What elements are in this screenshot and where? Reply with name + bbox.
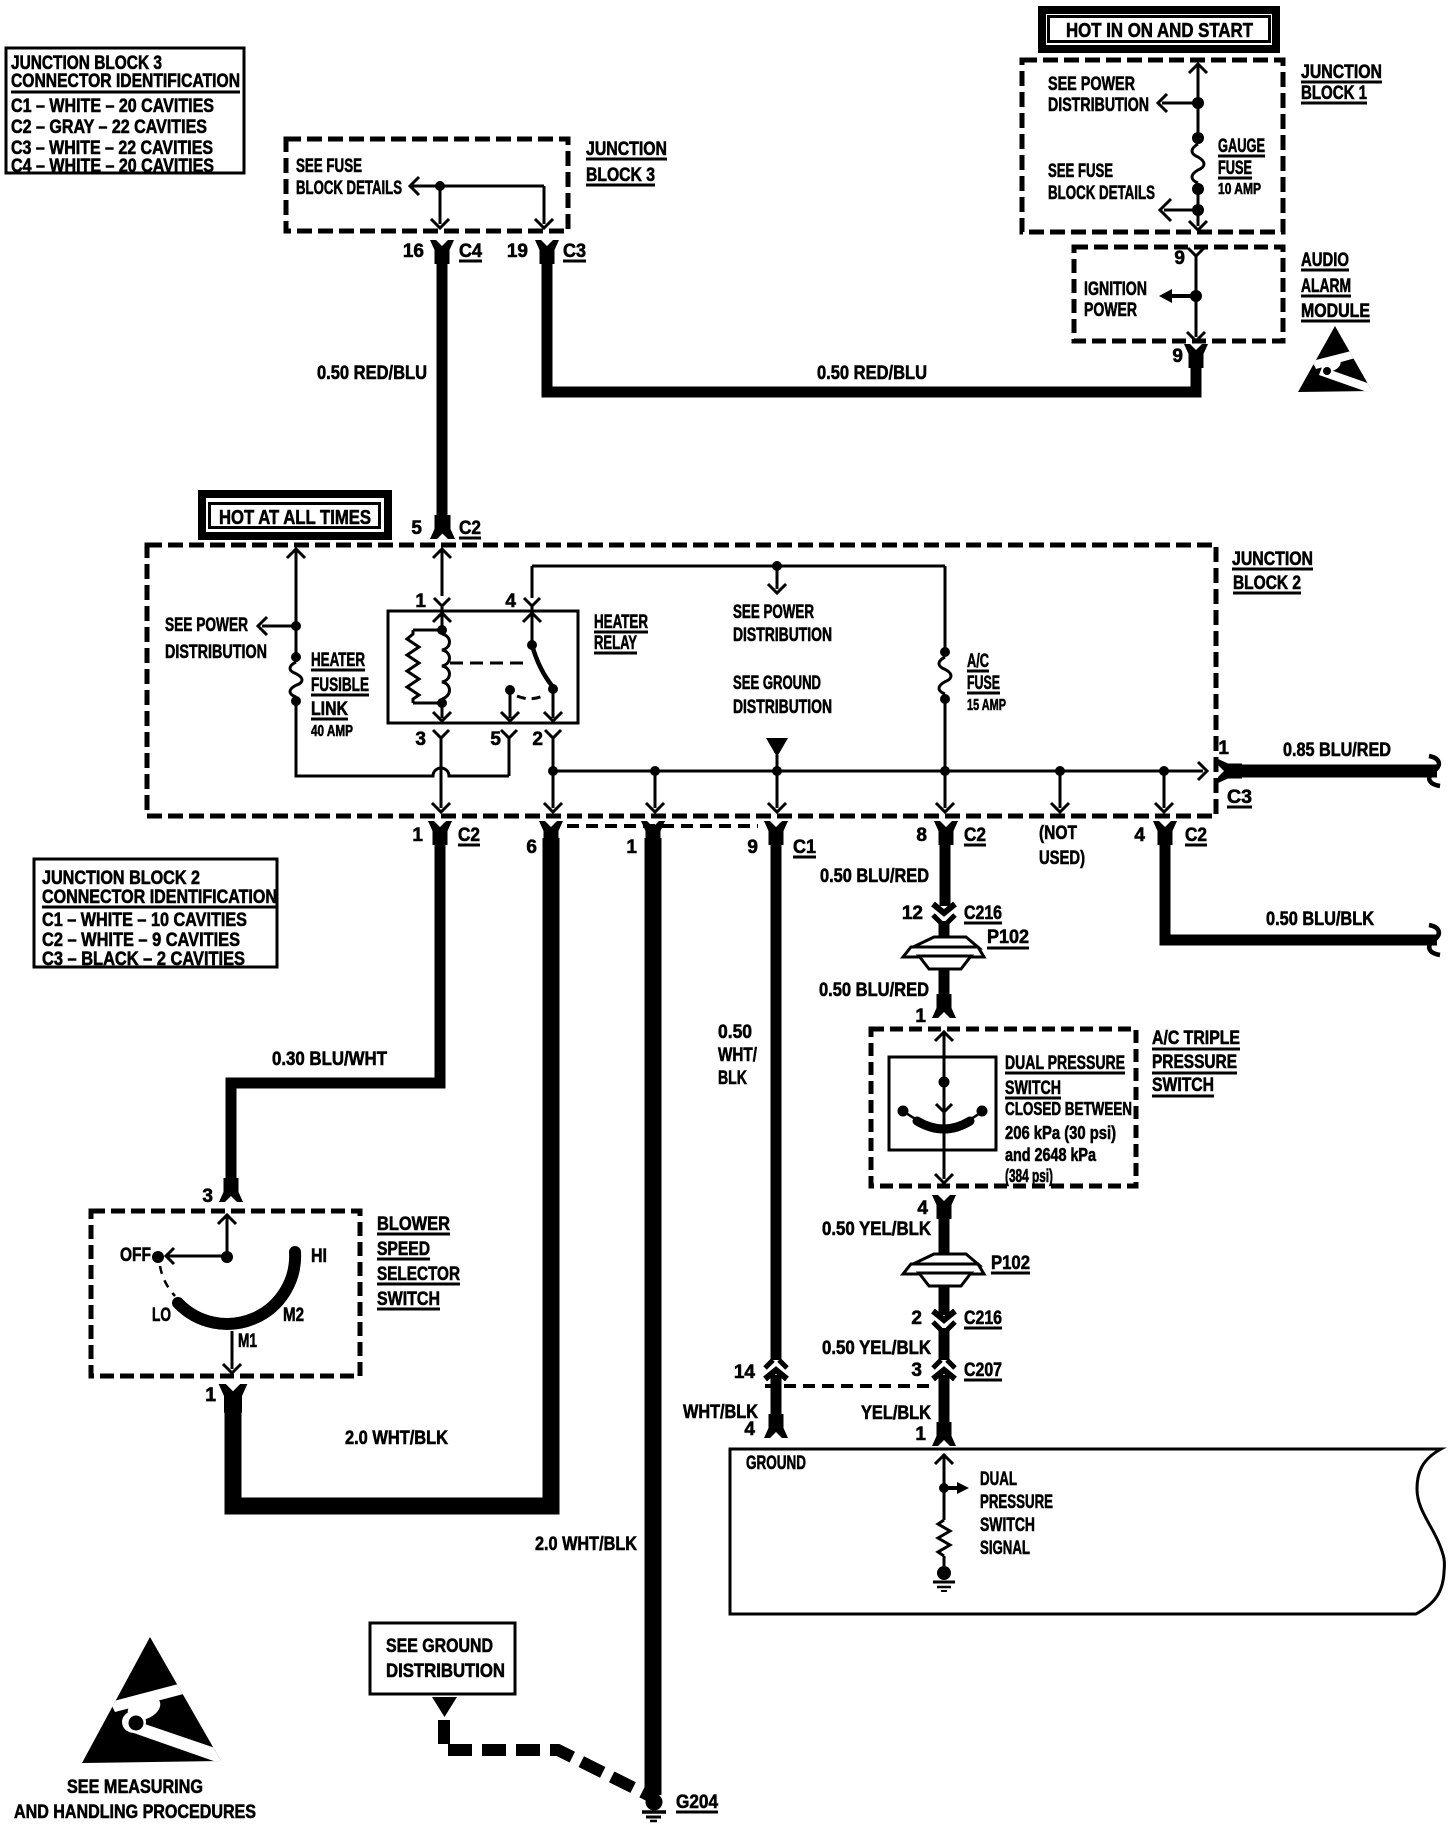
svg-text:C2 – WHITE – 9 CAVITIES: C2 – WHITE – 9 CAVITIES xyxy=(42,930,240,951)
svg-text:M2: M2 xyxy=(283,1305,304,1326)
svg-text:0.50 YEL/BLK: 0.50 YEL/BLK xyxy=(822,1219,931,1240)
svg-text:USED): USED) xyxy=(1039,848,1085,869)
svg-text:PRESSURE: PRESSURE xyxy=(1152,1052,1237,1073)
svg-text:GAUGE: GAUGE xyxy=(1218,136,1265,157)
grommet P102 (first) xyxy=(903,927,1029,969)
wire: JB3 junction down to C4-16 xyxy=(431,186,449,228)
svg-text:and 2648 kPa: and 2648 kPa xyxy=(1005,1145,1097,1165)
svg-text:JUNCTION: JUNCTION xyxy=(1301,62,1382,83)
svg-text:4: 4 xyxy=(1134,825,1145,846)
svg-text:SWITCH: SWITCH xyxy=(377,1289,440,1310)
node: bus junction 6 xyxy=(650,766,660,776)
svg-text:SEE FUSE: SEE FUSE xyxy=(296,156,362,177)
connector: blower switch pin 1 xyxy=(205,1385,216,1406)
svg-text:SPEED: SPEED xyxy=(377,1239,430,1260)
svg-text:SEE GROUND: SEE GROUND xyxy=(733,673,821,694)
svg-text:5: 5 xyxy=(490,729,501,750)
svg-text:HOT IN ON AND START: HOT IN ON AND START xyxy=(1066,20,1253,42)
svg-text:5: 5 xyxy=(411,518,422,539)
svg-text:BLK: BLK xyxy=(718,1068,747,1089)
connector: pressure switch pin 1 xyxy=(915,994,956,1027)
svg-text:(384 psi): (384 psi) xyxy=(1005,1166,1053,1186)
svg-text:0.50 YEL/BLK: 0.50 YEL/BLK xyxy=(822,1338,931,1359)
A/C triple pressure switch dashed box xyxy=(871,1029,1136,1186)
svg-text:IGNITION: IGNITION xyxy=(1084,279,1147,300)
svg-text:1: 1 xyxy=(205,1385,216,1406)
svg-text:DISTRIBUTION: DISTRIBUTION xyxy=(386,1661,505,1682)
wire: left branch to fusible link xyxy=(287,549,305,662)
wire: entry arrow to relay pin 1 xyxy=(433,549,451,596)
relay pin 5 contact xyxy=(505,685,545,699)
wire 0.50 RED/BLU from JB3 C4-16 down to JB2 C2-5 xyxy=(317,252,454,539)
connector C2 cavity 1 (blower feed) xyxy=(412,821,480,846)
svg-text:DUAL: DUAL xyxy=(980,1469,1017,1490)
connector C2 cavity 4 xyxy=(1134,821,1207,846)
ground: module internal ground xyxy=(933,1566,955,1591)
wire 0.50 BLU/BLK xyxy=(1165,838,1440,955)
svg-text:SEE POWER: SEE POWER xyxy=(165,615,248,636)
wire arrow dual pressure switch signal xyxy=(944,1482,969,1494)
svg-text:2.0 WHT/BLK: 2.0 WHT/BLK xyxy=(345,1428,448,1449)
ESD symbol large xyxy=(82,1637,230,1765)
svg-text:FUSIBLE: FUSIBLE xyxy=(311,675,369,696)
relay pin 5 connector xyxy=(490,729,517,750)
svg-text:C2: C2 xyxy=(1185,825,1207,846)
svg-text:SEE MEASURING: SEE MEASURING xyxy=(67,1777,203,1798)
svg-text:ALARM: ALARM xyxy=(1301,276,1351,297)
svg-text:2.0 WHT/BLK: 2.0 WHT/BLK xyxy=(535,1534,637,1555)
see power distribution label (JB1) xyxy=(1048,74,1149,116)
wire 2.0 WHT/BLK blower return xyxy=(205,838,551,1506)
svg-text:JUNCTION BLOCK 2: JUNCTION BLOCK 2 xyxy=(42,868,200,889)
banner: HOT IN ON AND START xyxy=(1042,10,1276,49)
svg-text:3: 3 xyxy=(415,729,426,750)
wire 0.50 BLU/RED to C216 xyxy=(820,838,945,906)
junction block 2 connector identification table xyxy=(34,859,277,970)
svg-text:SIGNAL: SIGNAL xyxy=(980,1538,1030,1559)
not used drop xyxy=(1039,823,1085,869)
wire arrow to power distribution (JB2 left) xyxy=(258,617,301,635)
connector C207 cavity 3 xyxy=(911,1360,1002,1381)
dual pressure switch labels xyxy=(1005,1053,1132,1186)
wire YEL/BLK to module xyxy=(861,1375,944,1425)
see fuse block details label (JB1) xyxy=(1048,161,1155,204)
blower speed selector switch dashed box xyxy=(91,1211,360,1376)
svg-text:0.50 RED/BLU: 0.50 RED/BLU xyxy=(817,363,927,384)
svg-text:HI: HI xyxy=(311,1246,327,1267)
svg-text:C216: C216 xyxy=(964,903,1002,924)
svg-text:C2: C2 xyxy=(964,825,986,846)
dual pressure switch signal label xyxy=(980,1469,1053,1559)
connector C216 cavity 12 xyxy=(902,903,1002,924)
svg-text:SELECTOR: SELECTOR xyxy=(377,1264,460,1285)
svg-text:C4: C4 xyxy=(459,241,482,262)
see ground distribution label (JB2) xyxy=(733,673,832,718)
relay pin 4 xyxy=(505,591,541,645)
node: JB3 internal junction xyxy=(435,181,445,191)
ignition power label xyxy=(1084,279,1147,321)
svg-text:C4 – WHITE – 20 CAVITIES: C4 – WHITE – 20 CAVITIES xyxy=(11,156,214,177)
fuse: gauge fuse 10 amp xyxy=(1192,132,1265,198)
connector C216 cavity 2 xyxy=(911,1308,1002,1330)
svg-text:RELAY: RELAY xyxy=(594,633,637,654)
relay actuator dashed line xyxy=(450,662,526,665)
svg-text:G204: G204 xyxy=(676,1792,718,1813)
junction block 1 dashed box xyxy=(1022,60,1283,232)
svg-text:0.50: 0.50 xyxy=(718,1022,752,1043)
connector C3 cavity 19 xyxy=(507,240,586,264)
see power distribution label (JB2 left) xyxy=(165,615,267,663)
svg-text:0.30 BLU/WHT: 0.30 BLU/WHT xyxy=(272,1049,387,1070)
svg-text:C207: C207 xyxy=(964,1360,1002,1381)
svg-text:PRESSURE: PRESSURE xyxy=(980,1492,1053,1513)
wire 2.0 WHT/BLK to G204 xyxy=(535,838,653,1795)
wire 0.50 RED/BLU from JB3 C3-19 to audio alarm module pin 9 xyxy=(547,252,1196,392)
junction block 2 dashed box xyxy=(147,545,1216,816)
resistor: module pull-down xyxy=(938,1488,950,1566)
svg-text:YEL/BLK: YEL/BLK xyxy=(861,1403,931,1424)
relay pin 3 internal xyxy=(433,703,451,721)
wire arrow ignition power xyxy=(1159,289,1202,303)
svg-text:WHT/: WHT/ xyxy=(718,1045,758,1066)
svg-text:BLOWER: BLOWER xyxy=(377,1214,450,1235)
svg-text:M1: M1 xyxy=(238,1331,257,1352)
wire: relay pin 4 up and across to A/C fuse xyxy=(532,566,945,652)
wire: fusible link to relay pin 5 (hop over pin 3) xyxy=(296,701,509,776)
svg-text:0.50 BLU/RED: 0.50 BLU/RED xyxy=(820,866,929,887)
node: bus junction 4 xyxy=(1159,766,1169,776)
svg-text:SEE FUSE: SEE FUSE xyxy=(1048,161,1113,182)
wire 0.30 BLU/WHT to blower switch xyxy=(219,838,440,1202)
wire arrow to power distribution (JB1) xyxy=(1158,94,1198,112)
audio alarm module title xyxy=(1301,250,1370,322)
connector: module pin 4 xyxy=(744,1414,788,1440)
wire 0.50 YEL/BLK to P102 xyxy=(822,1212,944,1315)
relay pin 2 internal xyxy=(544,689,562,721)
svg-text:14: 14 xyxy=(734,1362,756,1383)
dashed ground wire to G204 xyxy=(444,1720,650,1796)
svg-text:DISTRIBUTION: DISTRIBUTION xyxy=(733,697,832,718)
svg-text:9: 9 xyxy=(747,837,758,858)
svg-text:AUDIO: AUDIO xyxy=(1301,250,1349,271)
svg-text:C3: C3 xyxy=(563,241,586,262)
wire arrow see power distribution (right) xyxy=(768,566,786,593)
control module box xyxy=(730,1449,1444,1614)
svg-text:SWITCH: SWITCH xyxy=(1005,1078,1061,1099)
svg-text:DISTRIBUTION: DISTRIBUTION xyxy=(733,625,832,646)
svg-text:15 AMP: 15 AMP xyxy=(967,697,1006,714)
svg-text:DUAL PRESSURE: DUAL PRESSURE xyxy=(1005,1053,1125,1074)
svg-text:POWER: POWER xyxy=(1084,300,1137,321)
wire WHT/BLK to module xyxy=(683,1375,776,1423)
svg-text:GROUND: GROUND xyxy=(746,1453,806,1474)
svg-text:2: 2 xyxy=(911,1308,922,1329)
svg-text:BLOCK DETAILS: BLOCK DETAILS xyxy=(296,178,402,199)
svg-text:C1 – WHITE – 20 CAVITIES: C1 – WHITE – 20 CAVITIES xyxy=(11,96,214,117)
heater relay title xyxy=(594,612,648,654)
node: bus junction ground xyxy=(772,766,782,776)
svg-text:BLOCK DETAILS: BLOCK DETAILS xyxy=(1048,183,1155,204)
wire: relay pin 3 to JB2 bottom xyxy=(432,748,450,812)
junction block 3 connector identification table xyxy=(6,48,244,177)
svg-text:SEE POWER: SEE POWER xyxy=(1048,74,1135,95)
svg-text:(NOT: (NOT xyxy=(1039,823,1077,844)
junction block 3 dashed box xyxy=(286,139,568,231)
svg-text:SEE POWER: SEE POWER xyxy=(733,602,814,623)
ground distribution triangle (bottom) xyxy=(432,1697,457,1717)
see power distribution label (right) xyxy=(733,602,832,646)
svg-text:HOT AT ALL TIMES: HOT AT ALL TIMES xyxy=(219,507,371,529)
svg-text:A/C: A/C xyxy=(967,651,989,672)
svg-text:MODULE: MODULE xyxy=(1301,301,1370,322)
svg-text:C216: C216 xyxy=(964,1308,1002,1329)
svg-text:CLOSED BETWEEN: CLOSED BETWEEN xyxy=(1005,1099,1132,1119)
svg-text:SWITCH: SWITCH xyxy=(980,1515,1035,1536)
banner: HOT AT ALL TIMES xyxy=(202,494,388,536)
svg-text:AND HANDLING PROCEDURES: AND HANDLING PROCEDURES xyxy=(14,1802,256,1823)
svg-text:40 AMP: 40 AMP xyxy=(311,723,353,740)
svg-text:1: 1 xyxy=(626,837,637,858)
svg-text:1: 1 xyxy=(915,1424,926,1445)
module internal: pin 1 circuit xyxy=(935,1455,953,1488)
svg-text:1: 1 xyxy=(1218,738,1229,759)
node: JB1 junction xyxy=(1192,97,1204,109)
wire arrow to fuse block (JB1) xyxy=(1160,199,1204,221)
node: module junction xyxy=(939,1483,949,1493)
svg-text:10 AMP: 10 AMP xyxy=(1218,181,1261,198)
svg-text:BLOCK 2: BLOCK 2 xyxy=(1233,573,1301,594)
svg-text:P102: P102 xyxy=(987,927,1029,948)
connector C4 cavity 16 xyxy=(403,240,483,264)
connector C2 cavity 8 xyxy=(916,821,986,846)
svg-text:0.50 BLU/RED: 0.50 BLU/RED xyxy=(819,980,929,1001)
svg-text:9: 9 xyxy=(1172,346,1183,367)
svg-text:3: 3 xyxy=(202,1186,213,1207)
svg-text:HEATER: HEATER xyxy=(311,650,365,671)
junction block 2 title xyxy=(1232,549,1313,594)
wire 0.50 YEL/BLK to C207 xyxy=(822,1328,944,1360)
svg-text:CONNECTOR IDENTIFICATION: CONNECTOR IDENTIFICATION xyxy=(42,887,277,908)
svg-text:6: 6 xyxy=(526,837,537,858)
node: power distribution tap xyxy=(772,561,782,571)
connector: module pin 1 xyxy=(915,1422,956,1446)
svg-text:C3 – BLACK – 2 CAVITIES: C3 – BLACK – 2 CAVITIES xyxy=(42,949,245,970)
dashed harness link xyxy=(765,1384,935,1388)
connector: AAM pin 9 output xyxy=(1172,344,1208,368)
svg-text:206 kPa (30 psi): 206 kPa (30 psi) xyxy=(1005,1123,1116,1143)
svg-text:LINK: LINK xyxy=(311,699,348,720)
node: bus junction fuse xyxy=(940,766,950,776)
relay coil with resistor xyxy=(407,625,450,708)
svg-text:4: 4 xyxy=(744,1419,755,1440)
connector: AAM pin 9 top xyxy=(1174,248,1204,296)
wire: JB1 vertical feed xyxy=(1189,64,1207,230)
wire: A/C fuse to bus xyxy=(944,699,947,771)
relay pin 3 connector xyxy=(415,729,449,750)
svg-text:JUNCTION: JUNCTION xyxy=(586,139,667,160)
svg-text:4: 4 xyxy=(917,1198,928,1219)
svg-text:BLOCK 3: BLOCK 3 xyxy=(586,165,655,186)
svg-text:C2 – GRAY – 22 CAVITIES: C2 – GRAY – 22 CAVITIES xyxy=(11,117,207,138)
relay: heater relay box xyxy=(388,611,578,723)
svg-text:0.50 RED/BLU: 0.50 RED/BLU xyxy=(317,363,427,384)
see measuring and handling procedures label xyxy=(14,1777,256,1823)
ground G204 xyxy=(642,1792,718,1821)
svg-text:12: 12 xyxy=(902,903,923,924)
svg-text:C3: C3 xyxy=(1227,787,1252,808)
connector: pressure switch pin 4 xyxy=(917,1195,956,1219)
svg-text:SEE GROUND: SEE GROUND xyxy=(386,1636,493,1657)
svg-text:8: 8 xyxy=(916,825,927,846)
ground distribution triangle xyxy=(766,738,788,771)
svg-text:C1: C1 xyxy=(793,837,816,858)
svg-text:1: 1 xyxy=(415,591,426,612)
connector C1 cavity 9 xyxy=(747,821,816,858)
svg-text:DISTRIBUTION: DISTRIBUTION xyxy=(165,642,267,663)
a/c triple pressure switch title xyxy=(1152,1028,1240,1096)
blower switch internals xyxy=(120,1215,327,1373)
connector C3 cavity 1 exit xyxy=(1218,738,1252,808)
svg-text:CONNECTOR IDENTIFICATION: CONNECTOR IDENTIFICATION xyxy=(11,71,240,92)
svg-text:1: 1 xyxy=(915,1006,926,1027)
svg-text:HEATER: HEATER xyxy=(594,612,648,633)
junction block 3 title xyxy=(586,139,667,186)
svg-text:FUSE: FUSE xyxy=(967,673,1000,694)
node: bus junction not-used xyxy=(1055,766,1065,776)
connector cavity 6 xyxy=(526,821,563,858)
svg-text:3: 3 xyxy=(911,1360,922,1381)
connector C2 cavity 5 entry xyxy=(411,515,481,539)
wire: AAM pin 9 bottom xyxy=(1187,296,1205,341)
svg-text:C2: C2 xyxy=(459,518,481,539)
svg-text:0.50 BLU/BLK: 0.50 BLU/BLK xyxy=(1266,909,1374,930)
svg-text:JUNCTION: JUNCTION xyxy=(1232,549,1313,570)
pressure switch internals xyxy=(889,1032,996,1183)
wire 0.85 BLU/RED xyxy=(1238,740,1440,786)
svg-text:C1 – WHITE – 10 CAVITIES: C1 – WHITE – 10 CAVITIES xyxy=(42,910,247,931)
svg-text:2: 2 xyxy=(532,729,543,750)
relay pin 1 xyxy=(415,591,451,630)
svg-text:0.85 BLU/RED: 0.85 BLU/RED xyxy=(1283,740,1391,761)
grommet P102 (second) xyxy=(903,1253,1030,1286)
svg-text:9: 9 xyxy=(1174,248,1185,269)
junction block 1 title xyxy=(1301,62,1382,104)
relay switch blade xyxy=(527,640,558,694)
svg-text:SWITCH: SWITCH xyxy=(1152,1075,1214,1096)
wire: main bus to C3-1 xyxy=(553,762,1207,780)
fuse: heater fusible link 40 amp xyxy=(290,650,369,740)
wire drops from bus to bottom connectors xyxy=(544,771,1173,812)
svg-text:A/C TRIPLE: A/C TRIPLE xyxy=(1152,1028,1240,1049)
svg-text:P102: P102 xyxy=(991,1253,1030,1274)
svg-text:OFF: OFF xyxy=(120,1245,151,1266)
svg-text:16: 16 xyxy=(403,241,424,262)
connector: blower switch pin 3 xyxy=(202,1186,213,1207)
extra dashed edge segment below JB2 xyxy=(567,824,758,828)
svg-text:FUSE: FUSE xyxy=(1218,158,1252,179)
relay pin 5 internal xyxy=(501,690,519,721)
fuse: A/C fuse 15 amp xyxy=(939,647,1006,714)
svg-text:19: 19 xyxy=(507,241,528,262)
wire: relay pin 2 down to bus xyxy=(552,748,555,771)
see fuse block details label (JB3) xyxy=(296,156,402,199)
svg-text:DISTRIBUTION: DISTRIBUTION xyxy=(1048,95,1149,116)
svg-text:LO: LO xyxy=(152,1305,171,1326)
svg-text:BLOCK 1: BLOCK 1 xyxy=(1301,83,1367,104)
relay pin 2 connector xyxy=(532,729,561,750)
blower speed selector switch title xyxy=(377,1214,460,1310)
wire 0.50 WHT/BLK xyxy=(718,838,776,1360)
connector cavity 1 (ground) xyxy=(626,821,665,858)
svg-text:C2: C2 xyxy=(458,825,480,846)
wire inside JB3 to fuse block xyxy=(410,177,553,228)
connector 14 on WHT/BLK xyxy=(734,1360,787,1383)
node: bus junction pin2 xyxy=(548,766,558,776)
wire 0.50 BLU/RED between C216 and pressure switch xyxy=(819,921,944,1001)
see ground distribution box xyxy=(370,1623,515,1694)
svg-text:4: 4 xyxy=(505,591,516,612)
audio alarm module dashed box xyxy=(1074,247,1283,341)
svg-text:1: 1 xyxy=(412,825,423,846)
ESD symbol small xyxy=(1298,326,1376,394)
